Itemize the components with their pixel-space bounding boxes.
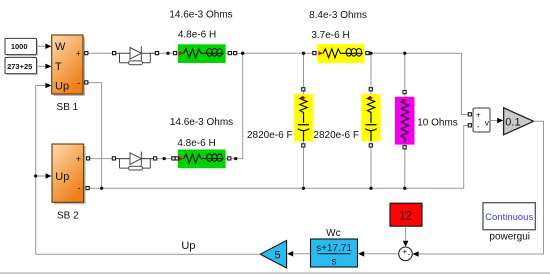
port square L3 right bbox=[228, 157, 231, 160]
powergui block bbox=[483, 203, 535, 230]
wire 12 down to sum bbox=[403, 226, 409, 247]
load resistor block 10 Ohms (magenta) bbox=[395, 97, 415, 145]
svg-text:12: 12 bbox=[399, 210, 412, 222]
feedback wire gain 0.1 down to sum junction bbox=[413, 121, 544, 256]
port square L3 left a bbox=[172, 157, 175, 160]
junction dot top rail / riser row2 bbox=[241, 52, 244, 55]
port square L2 left bbox=[313, 52, 316, 55]
series RL branch block L2 3.7e-6 H (top, yellow) bbox=[317, 44, 364, 63]
svg-text:Up: Up bbox=[55, 171, 69, 183]
wire: SB1 + output to diode D1 (top rail start) bbox=[88, 52, 114, 54]
port square C2 top bbox=[369, 88, 372, 91]
reference constant block 12 (red) bbox=[390, 203, 422, 226]
port square L1 right bbox=[228, 52, 231, 55]
svg-text:+: + bbox=[76, 154, 81, 164]
wire: SB1 - output down to bottom rail bbox=[88, 83, 102, 189]
port square L2 right bbox=[366, 52, 369, 55]
junction dot bottom rail / R load bbox=[403, 187, 406, 190]
wire: 1000 to SB1 W bbox=[36, 44, 51, 49]
series RC branch block C2 2820e-6 F (yellow) bbox=[361, 94, 380, 141]
junction dot top rail / R load bbox=[403, 52, 406, 55]
svg-text:1000: 1000 bbox=[11, 42, 28, 51]
svg-text:s+17.71: s+17.71 bbox=[316, 243, 352, 254]
wire: capacitor C2 riser bbox=[370, 53, 372, 188]
port square C2 bottom bbox=[369, 144, 372, 147]
svg-text:Up: Up bbox=[55, 81, 69, 93]
port square SB1 + bbox=[85, 52, 88, 55]
constant block 273+25 bbox=[5, 57, 38, 75]
port square L3 left b bbox=[175, 157, 178, 160]
wire: top rail D1 to RL1 to RL2 and down to voltmeter + bbox=[157, 53, 472, 114]
series RL branch block L3 4.8e-6 H (row2, green) bbox=[178, 150, 226, 169]
svg-text:273+25: 273+25 bbox=[7, 62, 32, 71]
port square D2 left bbox=[112, 157, 115, 160]
port square SB2 - bbox=[86, 187, 89, 190]
junction dot bottom rail / C1 bbox=[302, 187, 305, 190]
port square SB1 - bbox=[85, 81, 88, 84]
port square C1 top bbox=[302, 88, 305, 91]
svg-text:W: W bbox=[55, 41, 66, 53]
svg-text:2820e-6 F: 2820e-6 F bbox=[313, 130, 359, 141]
diode D2 bbox=[116, 152, 155, 171]
svg-text:4.8e-6 H: 4.8e-6 H bbox=[177, 138, 215, 149]
sum junction circle bbox=[399, 247, 413, 261]
svg-text:+: + bbox=[76, 49, 81, 59]
junction dot top rail / C1 bbox=[302, 52, 305, 55]
junction dot top rail / C2 bbox=[369, 52, 372, 55]
port square D2 right bbox=[154, 157, 157, 160]
series RC branch block C1 2820e-6 F (yellow) bbox=[294, 94, 313, 141]
svg-text:-: - bbox=[77, 78, 80, 88]
svg-text:v: v bbox=[485, 117, 490, 127]
svg-text:0.1: 0.1 bbox=[505, 116, 520, 128]
subsystem SB 2 bbox=[52, 144, 86, 204]
feedback wire gain 5 to SB1 Up and SB2 Up bbox=[34, 83, 260, 254]
svg-text:3.7e-6 H: 3.7e-6 H bbox=[311, 30, 349, 41]
svg-text:powergui: powergui bbox=[489, 231, 530, 242]
port square C1 bottom bbox=[302, 144, 305, 147]
svg-text:Up: Up bbox=[181, 240, 195, 252]
junction dot row2 between D2 and RL3 bbox=[163, 157, 166, 160]
port square D1 left bbox=[113, 52, 116, 55]
svg-text:14.6e-3 Ohms: 14.6e-3 Ohms bbox=[169, 10, 232, 21]
wire voltmeter v output to gain 0.1 bbox=[490, 118, 503, 124]
svg-text:SB 2: SB 2 bbox=[57, 210, 79, 221]
svg-text:SB 1: SB 1 bbox=[57, 102, 79, 113]
voltage measurement block bbox=[473, 108, 490, 132]
wire: bottom rail SB2 - to voltmeter - bbox=[89, 126, 472, 189]
wire: resistor R load riser bbox=[404, 53, 406, 188]
junction dot row1 after RL1 bbox=[241, 52, 244, 55]
port square L1 left bbox=[174, 52, 177, 55]
svg-text:8.4e-3 Ohms: 8.4e-3 Ohms bbox=[309, 10, 367, 21]
junction dot bottom rail / C2 bbox=[369, 187, 372, 190]
junction dot bottom rail / SB1 - bbox=[100, 187, 103, 190]
subsystem SB 1 bbox=[52, 35, 85, 96]
port square R top bbox=[403, 91, 406, 94]
port square voltmeter - bbox=[468, 124, 471, 127]
svg-text:4.8e-6 H: 4.8e-6 H bbox=[178, 30, 216, 41]
series RL branch block L1 4.8e-6 H (row1, green) bbox=[178, 44, 226, 63]
wire sum to transfer fcn Wc bbox=[358, 251, 399, 257]
junction dot row2 after RL3 bbox=[234, 157, 237, 160]
port square D1 right bbox=[155, 52, 158, 55]
svg-text:-: - bbox=[78, 183, 81, 193]
svg-text:+: + bbox=[476, 110, 481, 120]
gain block 0.1 (gray triangle) bbox=[504, 108, 534, 135]
port square R bottom bbox=[403, 146, 406, 149]
bottom window border bbox=[0, 273, 550, 274]
port square right of L1 (wire start) bbox=[234, 52, 237, 55]
diode D1 bbox=[116, 46, 155, 65]
svg-text:5: 5 bbox=[275, 249, 281, 261]
port square voltmeter + bbox=[468, 113, 471, 116]
wire: capacitor C1 riser bbox=[303, 53, 305, 188]
junction dot row1 between D1 and RL1 bbox=[166, 52, 169, 55]
svg-text:T: T bbox=[55, 61, 62, 73]
gain block 5 (cyan triangle, points left) bbox=[260, 240, 286, 268]
svg-text:Continuous: Continuous bbox=[485, 212, 533, 223]
port square SB2 + bbox=[87, 157, 90, 160]
wire: row2 SB2 + through diode D2, RL3, riser up to top rail bbox=[90, 53, 243, 158]
svg-text:2820e-6 F: 2820e-6 F bbox=[247, 130, 293, 141]
svg-text:14.6e-3 Ohms: 14.6e-3 Ohms bbox=[170, 117, 233, 128]
wire: 273+25 to SB1 T bbox=[36, 64, 51, 69]
transfer function block Wc (cyan) bbox=[311, 239, 358, 268]
svg-text:Wc: Wc bbox=[326, 228, 340, 239]
wire transfer fcn to gain 5 bbox=[287, 251, 310, 257]
constant block 1000 bbox=[5, 38, 38, 56]
svg-text:-: - bbox=[477, 121, 480, 131]
svg-text:10 Ohms: 10 Ohms bbox=[417, 118, 458, 129]
svg-text:s: s bbox=[332, 257, 337, 268]
